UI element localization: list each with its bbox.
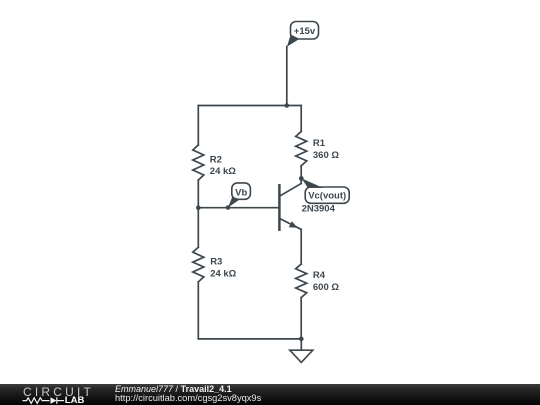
svg-text:R1: R1 [313, 138, 326, 149]
svg-text:2N3904: 2N3904 [302, 203, 336, 214]
junction bottom rail [299, 337, 304, 342]
transistor Q1 2N3904 [279, 184, 335, 230]
ground [290, 339, 313, 363]
power flag +15v [287, 22, 319, 47]
junction collector node [299, 176, 304, 181]
wire top rail to R1 [300, 106, 302, 132]
wire top rail [198, 105, 301, 107]
svg-text:Vb: Vb [235, 187, 247, 198]
resistor R1 360 Ω [296, 132, 340, 166]
wire R2 to base node [197, 180, 199, 208]
svg-text:R3: R3 [210, 257, 222, 268]
svg-text:360 Ω: 360 Ω [313, 150, 339, 161]
node flag Vc(vout) [302, 178, 350, 203]
wire top rail to R2 [197, 106, 199, 146]
junction top rail [285, 103, 290, 108]
svg-text:Vc(vout): Vc(vout) [308, 191, 346, 202]
wire +15v down to top rail [286, 47, 288, 106]
resistor R2 24 kΩ [193, 145, 236, 180]
svg-text:http://circuitlab.com/cgsg2sv8: http://circuitlab.com/cgsg2sv8yqx9s [115, 393, 262, 403]
wire R4 to bottom rail [300, 298, 302, 339]
resistor R4 600 Ω [296, 264, 340, 298]
resistor R3 24 kΩ [193, 247, 237, 282]
svg-text:LAB: LAB [65, 395, 85, 405]
wire base node to transistor base [198, 207, 278, 209]
CircuitLab logo [23, 385, 95, 405]
node flag Vb [226, 183, 251, 210]
svg-text:24 kΩ: 24 kΩ [210, 268, 236, 279]
wire base node to R3 [197, 208, 199, 248]
wire bottom rail [198, 338, 301, 340]
svg-text:R2: R2 [210, 154, 222, 165]
wire R1 to collector [300, 166, 302, 184]
wire R3 to bottom rail [197, 282, 199, 339]
footer bar [0, 384, 540, 405]
svg-text:+15v: +15v [294, 26, 316, 37]
svg-text:600 Ω: 600 Ω [313, 282, 339, 293]
svg-text:R4: R4 [313, 270, 326, 281]
junction base node [196, 205, 201, 210]
svg-text:24 kΩ: 24 kΩ [210, 166, 236, 177]
wire emitter to R4 [300, 229, 302, 264]
